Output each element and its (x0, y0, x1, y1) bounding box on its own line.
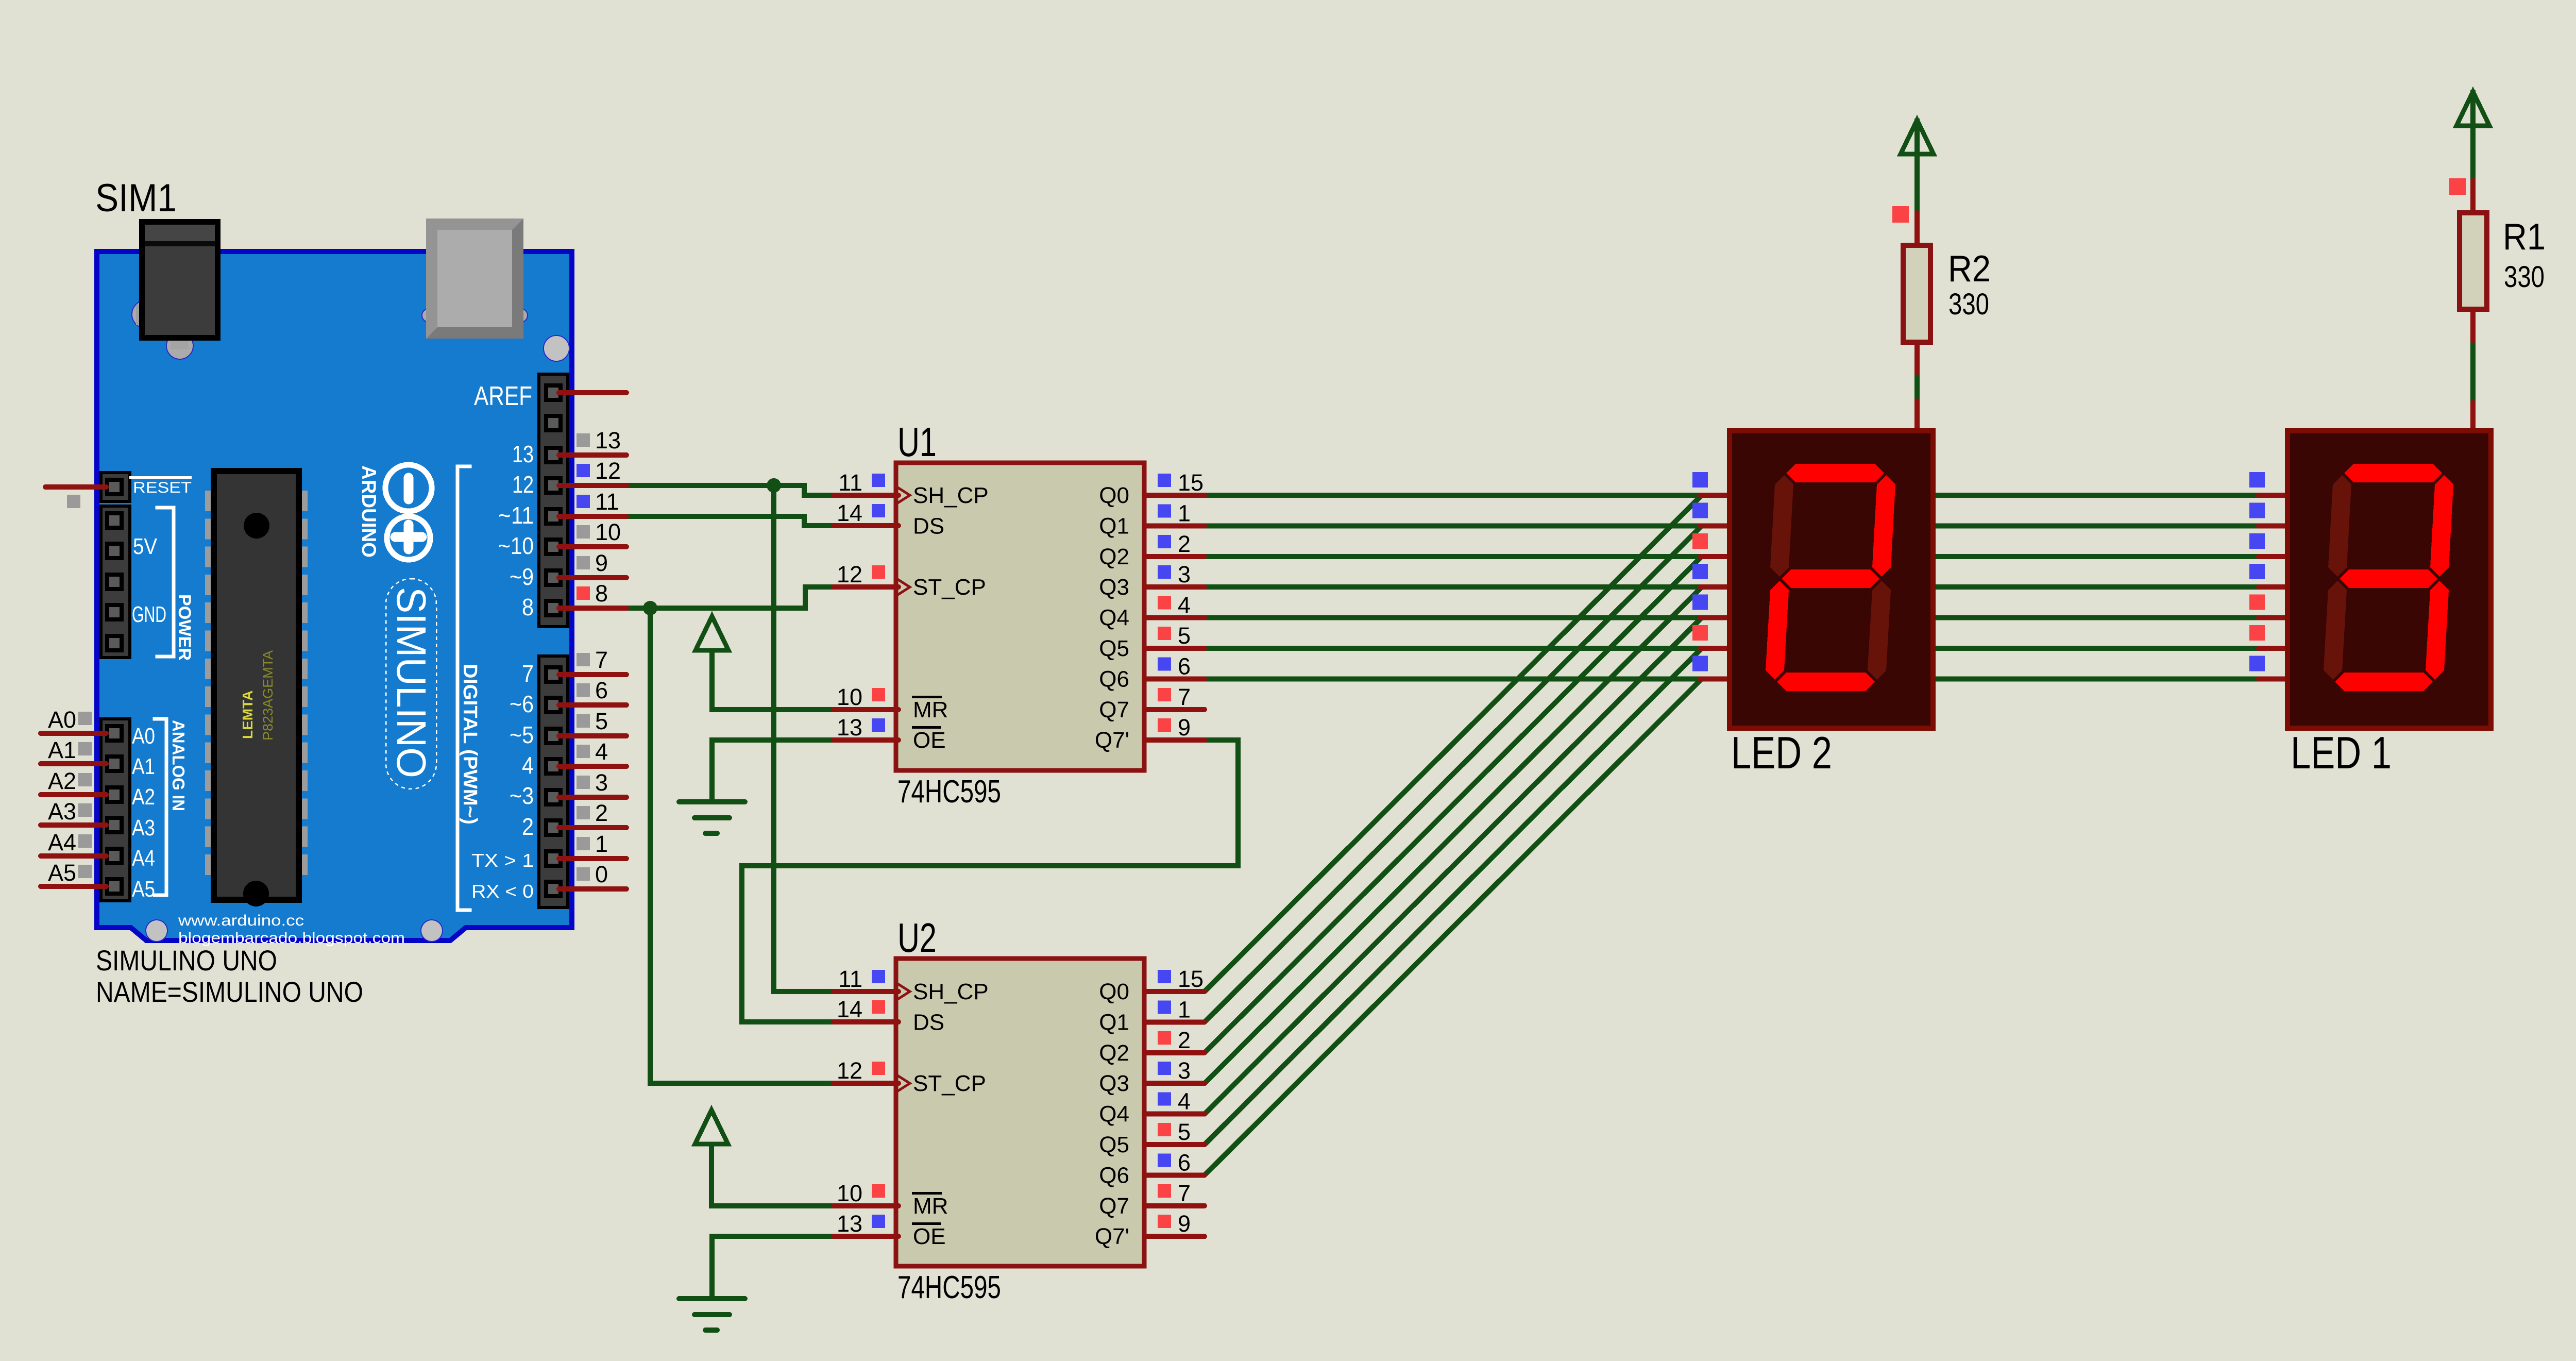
svg-text:4: 4 (522, 752, 534, 779)
svg-text:3: 3 (1178, 1057, 1191, 1084)
svg-text:A1: A1 (48, 737, 76, 763)
svg-text:10: 10 (595, 519, 621, 545)
svg-text:A2: A2 (132, 784, 155, 810)
svg-text:Q7: Q7 (1099, 697, 1129, 722)
svg-text:Q4: Q4 (1099, 606, 1129, 631)
svg-text:1: 1 (1178, 996, 1191, 1022)
svg-text:SIM1: SIM1 (95, 176, 177, 220)
svg-text:NAME=SIMULINO UNO: NAME=SIMULINO UNO (96, 976, 363, 1008)
svg-text:A0: A0 (132, 724, 155, 749)
svg-text:DIGITAL (PWM~): DIGITAL (PWM~) (459, 664, 481, 825)
svg-text:9: 9 (595, 550, 608, 576)
svg-text:U2: U2 (897, 915, 937, 961)
svg-text:11: 11 (595, 489, 619, 515)
svg-text:5V: 5V (133, 534, 158, 559)
svg-text:2: 2 (595, 800, 608, 826)
svg-text:Q7': Q7' (1095, 728, 1129, 753)
svg-text:POWER: POWER (175, 594, 194, 661)
svg-text:15: 15 (1178, 469, 1204, 496)
svg-text:SH_CP: SH_CP (913, 979, 989, 1004)
svg-text:A3: A3 (132, 815, 155, 841)
svg-text:A5: A5 (132, 877, 155, 902)
svg-text:2: 2 (522, 813, 534, 840)
svg-text:7: 7 (1178, 684, 1191, 710)
svg-text:LED 2: LED 2 (1731, 727, 1832, 778)
svg-text:Q5: Q5 (1099, 1132, 1129, 1157)
svg-text:LEMTA: LEMTA (240, 691, 256, 739)
svg-text:330: 330 (1948, 288, 1989, 321)
svg-text:DS: DS (913, 513, 944, 539)
svg-text:6: 6 (1178, 653, 1191, 679)
svg-text:Q7': Q7' (1095, 1224, 1129, 1249)
svg-text:Q5: Q5 (1099, 636, 1129, 661)
svg-text:~10: ~10 (498, 532, 534, 559)
svg-text:~3: ~3 (510, 782, 534, 809)
svg-text:A1: A1 (132, 754, 155, 779)
svg-text:Q0: Q0 (1099, 979, 1129, 1004)
svg-text:9: 9 (1178, 714, 1191, 741)
svg-text:10: 10 (837, 684, 862, 710)
svg-text:330: 330 (2504, 260, 2545, 294)
svg-text:OE: OE (913, 728, 946, 753)
svg-text:TX > 1: TX > 1 (471, 850, 534, 871)
svg-text:13: 13 (512, 441, 534, 467)
svg-text:7: 7 (595, 647, 608, 673)
svg-text:9: 9 (1178, 1211, 1191, 1237)
svg-text:RESET: RESET (133, 479, 192, 496)
svg-text:11: 11 (838, 469, 862, 496)
svg-text:Q7: Q7 (1099, 1194, 1129, 1219)
svg-text:~9: ~9 (510, 563, 534, 590)
svg-text:Q3: Q3 (1099, 575, 1129, 600)
svg-text:ARDUINO: ARDUINO (358, 465, 380, 558)
svg-text:Q4: Q4 (1099, 1102, 1129, 1127)
svg-text:6: 6 (595, 677, 608, 703)
svg-text:SIMULINO UNO: SIMULINO UNO (96, 944, 277, 977)
svg-text:74HC595: 74HC595 (897, 1270, 1001, 1305)
svg-text:~5: ~5 (510, 721, 534, 748)
svg-text:0: 0 (595, 861, 608, 887)
svg-text:U1: U1 (897, 419, 937, 465)
svg-text:13: 13 (837, 1211, 862, 1237)
svg-text:Q1: Q1 (1099, 513, 1129, 539)
svg-text:6: 6 (1178, 1149, 1191, 1175)
svg-text:Q1: Q1 (1099, 1010, 1129, 1035)
svg-text:AREF: AREF (474, 381, 532, 411)
svg-text:5: 5 (595, 708, 608, 734)
svg-text:GND: GND (132, 602, 166, 627)
svg-text:12: 12 (837, 1057, 862, 1084)
svg-text:74HC595: 74HC595 (897, 774, 1001, 810)
svg-text:RX < 0: RX < 0 (471, 881, 534, 902)
svg-text:13: 13 (837, 714, 862, 741)
svg-text:1: 1 (595, 831, 608, 857)
svg-text:DS: DS (913, 1010, 944, 1035)
svg-text:ST_CP: ST_CP (913, 1071, 986, 1096)
svg-text:~6: ~6 (510, 691, 534, 717)
svg-text:Q0: Q0 (1099, 483, 1129, 508)
svg-text:Q2: Q2 (1099, 1040, 1129, 1066)
svg-text:R2: R2 (1948, 248, 1991, 290)
svg-text:3: 3 (595, 769, 608, 796)
svg-text:12: 12 (512, 471, 534, 498)
svg-text:A3: A3 (48, 798, 76, 825)
svg-text:8: 8 (595, 580, 608, 607)
svg-text:11: 11 (838, 966, 862, 992)
svg-text:~11: ~11 (498, 502, 534, 529)
svg-text:12: 12 (595, 458, 621, 484)
svg-text:ANALOG IN: ANALOG IN (169, 720, 188, 811)
svg-text:A5: A5 (48, 860, 76, 886)
svg-text:P823AGEMTA: P823AGEMTA (260, 650, 276, 741)
svg-text:A4: A4 (132, 846, 155, 871)
svg-text:ST_CP: ST_CP (913, 575, 986, 600)
svg-text:14: 14 (837, 996, 862, 1022)
svg-text:MR: MR (913, 697, 948, 722)
svg-text:4: 4 (595, 738, 608, 765)
svg-text:14: 14 (837, 500, 862, 526)
svg-text:8: 8 (522, 594, 534, 620)
svg-text:7: 7 (522, 660, 534, 687)
svg-text:Q6: Q6 (1099, 1163, 1129, 1188)
svg-text:OE: OE (913, 1224, 946, 1249)
svg-text:2: 2 (1178, 1027, 1191, 1053)
svg-text:12: 12 (837, 561, 862, 587)
svg-text:A2: A2 (48, 768, 76, 794)
svg-text:R1: R1 (2503, 216, 2546, 258)
svg-text:Q2: Q2 (1099, 544, 1129, 569)
svg-text:www.arduino.cc: www.arduino.cc (178, 912, 304, 929)
svg-text:A4: A4 (48, 829, 76, 855)
svg-text:10: 10 (837, 1180, 862, 1206)
svg-text:13: 13 (595, 427, 621, 453)
svg-text:Q3: Q3 (1099, 1071, 1129, 1096)
svg-text:5: 5 (1178, 623, 1191, 649)
svg-text:4: 4 (1178, 1088, 1191, 1115)
svg-text:SIMULINO: SIMULINO (388, 587, 434, 778)
svg-text:3: 3 (1178, 561, 1191, 587)
svg-text:1: 1 (1178, 500, 1191, 526)
svg-text:SH_CP: SH_CP (913, 483, 989, 508)
svg-text:MR: MR (913, 1194, 948, 1219)
svg-text:7: 7 (1178, 1180, 1191, 1206)
svg-text:LED 1: LED 1 (2291, 727, 2392, 778)
svg-text:5: 5 (1178, 1119, 1191, 1145)
svg-text:4: 4 (1178, 592, 1191, 618)
svg-text:2: 2 (1178, 531, 1191, 557)
svg-text:15: 15 (1178, 966, 1204, 992)
svg-text:A0: A0 (48, 707, 76, 733)
svg-text:Q6: Q6 (1099, 666, 1129, 692)
